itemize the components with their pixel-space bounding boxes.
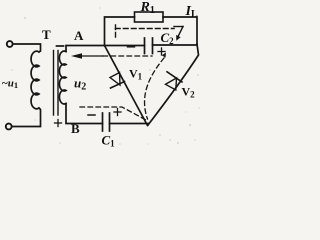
diode V1 [110,73,125,89]
dashed loop diagonal segment (parallel to V2) [145,58,164,119]
wire left riser to top loop [105,17,135,46]
paper background [0,0,202,149]
terminal top-left [7,41,13,47]
polarity mark plus (C2) [158,48,165,55]
polarity mark minus (C1) [88,114,95,116]
polarity mark plus (u2 bottom) [55,120,62,127]
wire secondary top to node A and C2 [66,46,145,52]
dashed loop top segment with left arrow [81,55,152,57]
wire C1 to node M [110,123,149,125]
capacitor C1 right plate [109,113,111,131]
svg-text:T: T [42,27,51,42]
dashed load-current loop under R1 [116,25,184,39]
diode V2 branch wire [148,44,199,125]
capacitor C1 left plate [102,113,104,131]
capacitor C2 left plate [144,38,146,54]
resistor R1 body [135,12,164,22]
polarity mark plus (C1) [114,109,121,116]
wire C2 to right corner [153,44,198,46]
core line right [57,51,59,116]
diode V2 [166,72,183,90]
terminal bottom-left [6,124,12,130]
wire secondary bottom (node B) [66,104,103,124]
capacitor C2 right plate [152,38,154,54]
svg-text:A: A [74,28,84,43]
core line left [53,51,55,116]
wire primary top [13,44,41,52]
diode V1 branch wire [105,46,148,126]
wire resistor to right corner [163,17,197,45]
svg-text:~u1: ~u1 [2,78,18,91]
svg-text:B: B [71,121,80,136]
dashed loop bottom segment [80,107,146,120]
secondary winding [59,51,66,104]
arrowhead up-right on dashed diagonal [162,53,166,58]
primary winding [31,51,39,109]
wire primary bottom [12,108,40,127]
polarity mark minus (u2 top) [57,45,64,47]
polarity mark minus (C2) [128,46,135,48]
